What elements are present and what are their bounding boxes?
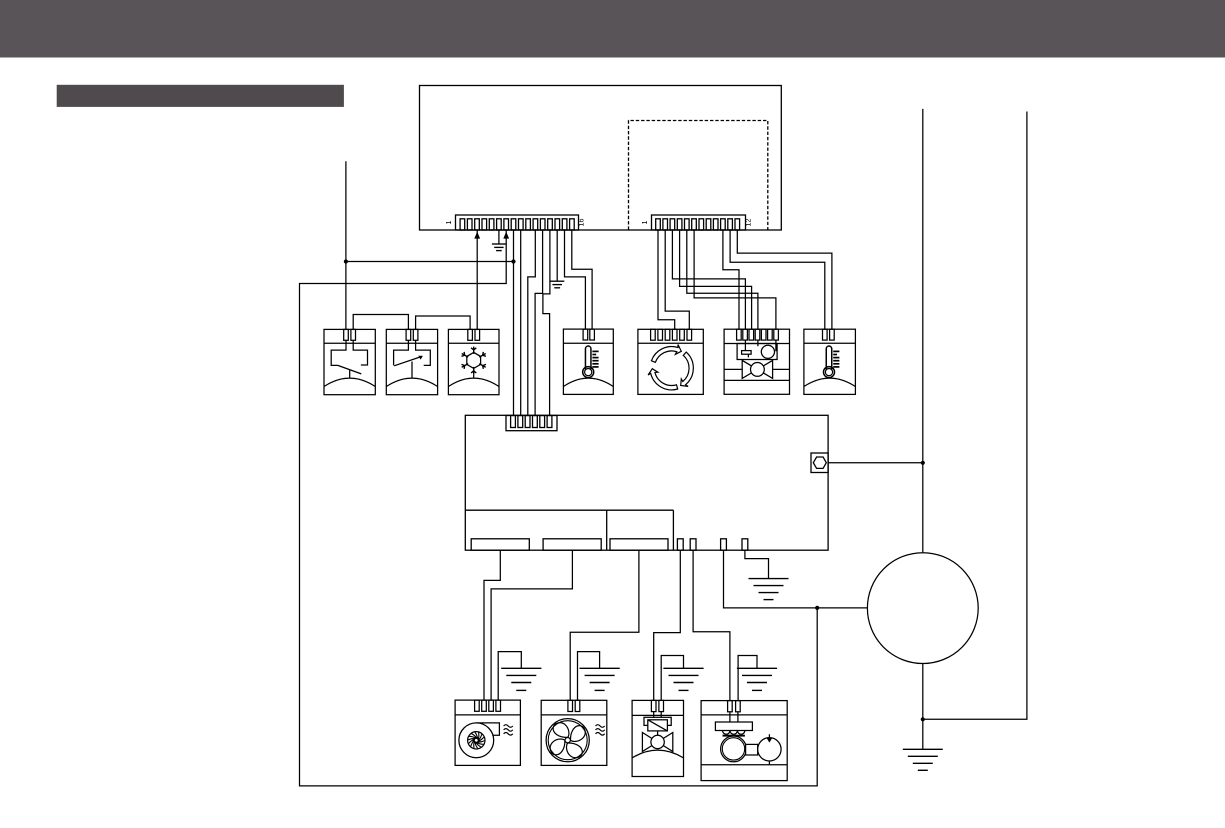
wire tab T6 to compressor xyxy=(724,550,868,608)
ground G8 lead xyxy=(922,719,924,749)
MF blades xyxy=(570,725,586,742)
wire hexagon terminal to line L1 xyxy=(828,462,923,464)
ground G7 lead from heater unit pin2 xyxy=(738,656,757,701)
wire tab T7 to ground G5 xyxy=(745,550,769,578)
wire pin11 to board pin3 xyxy=(528,230,536,416)
connector CN-B pins 1-12 xyxy=(656,219,740,230)
MB impeller blades xyxy=(468,732,485,749)
HU protector triangle xyxy=(767,738,773,743)
board section divider vertical 2 xyxy=(672,510,674,550)
arrow on pin7 wire xyxy=(503,232,509,239)
wire tab T1 to blower pin2 xyxy=(484,550,500,700)
LEV valve body left triangle xyxy=(742,360,757,378)
louver motor ML box xyxy=(638,329,703,394)
SV valve right triangle xyxy=(658,733,673,752)
expansion valve LEV header line xyxy=(724,343,789,345)
expansion valve LEV pins xyxy=(737,329,779,340)
float switch FS1 level arc xyxy=(324,378,375,386)
junction dot float branch xyxy=(344,259,348,263)
MF inner ring xyxy=(548,721,587,760)
TH1 thermometer symbol xyxy=(585,346,591,369)
board section divider vertical 1 xyxy=(606,510,608,550)
thermistor TH1 pins xyxy=(583,329,594,340)
thermistor TH2 box xyxy=(804,329,856,394)
thermistor TH2 header line xyxy=(804,342,856,344)
wire pin16 to thermistor TH1 pin2 xyxy=(572,230,592,329)
fan motor MF header line xyxy=(541,714,607,716)
wire pin14 ground stub xyxy=(556,230,558,281)
SV level arc xyxy=(632,750,683,758)
ground G5 xyxy=(749,579,789,600)
thermistor TH1 box xyxy=(563,329,613,394)
LEV coil resistor xyxy=(742,351,752,355)
junction dot hexagon wire xyxy=(921,461,925,465)
wire pin8 to board pin1 xyxy=(513,230,515,416)
HU coil bumps xyxy=(723,731,745,735)
HU motor outer circle xyxy=(721,736,747,762)
svg-text:16: 16 xyxy=(577,219,586,227)
TH2 thermometer symbol xyxy=(826,346,832,369)
solenoid valve SV box xyxy=(632,700,683,776)
ground G4 xyxy=(580,668,620,690)
board output tab T3 xyxy=(610,539,668,550)
thermistor TH1 header line xyxy=(563,342,613,344)
bridge wire FS1 to FS2 xyxy=(353,315,408,330)
wire tab T3 to fan pin1 xyxy=(570,550,639,700)
blower motor MB pins xyxy=(475,700,501,711)
wire CN-B pin11 to thermistor TH2 pin1 xyxy=(730,230,825,329)
wire CN-B pin2 to louver motor pin6 xyxy=(665,230,689,329)
bus wire to float switch branch xyxy=(346,261,514,263)
louver motor ML pins xyxy=(651,329,692,340)
defrost switch DEF header line xyxy=(448,342,499,344)
blower motor MB box xyxy=(455,700,520,765)
board output tab T6 xyxy=(721,539,727,550)
ground G4 lead from fan pin2 xyxy=(578,652,600,701)
junction dot frame right edge xyxy=(815,606,819,610)
LEV inner sub-box xyxy=(737,344,777,360)
defrost switch DEF level arc xyxy=(448,378,499,386)
thermistor TH2 level arc xyxy=(804,378,856,386)
float switch FS2 level arc xyxy=(386,378,437,386)
float switch FS1 box xyxy=(324,329,375,394)
wire tab T5 to heater unit pin1 xyxy=(693,550,730,700)
SV stem xyxy=(657,731,659,735)
DEF snowflake hexagon xyxy=(467,352,481,368)
ground G2 xyxy=(550,281,564,288)
wire tab T2 to blower pin3 xyxy=(491,550,572,700)
compressor supply line L1 xyxy=(922,109,924,552)
SV coil bracket xyxy=(644,717,671,725)
board output tab T5 xyxy=(690,539,696,550)
FS2 switch symbol xyxy=(394,340,431,378)
junction dot compressor ground xyxy=(921,717,925,721)
wire stub and drop to float switch FS1 xyxy=(345,161,347,329)
wire CN-B pin12 to thermistor TH2 pin2 xyxy=(737,230,832,329)
defrost switch DEF box xyxy=(448,329,499,394)
HU base line xyxy=(701,764,787,766)
thermistor TH2 pins xyxy=(823,329,835,340)
title bar xyxy=(57,85,344,107)
MB casing circle xyxy=(459,723,494,758)
header banner xyxy=(0,0,1225,58)
MF outer ring xyxy=(546,719,589,762)
ground G3 xyxy=(501,668,541,690)
MB airflow waves xyxy=(504,725,513,728)
wire CN-B pin3 to valve coil pin2 xyxy=(672,230,745,329)
board output tab T2 xyxy=(543,539,601,550)
wire pin13 to board pin6 xyxy=(543,230,550,416)
neutral line L2 xyxy=(923,112,1027,720)
wire CN-B pin10 to valve coil pin1 xyxy=(723,230,739,329)
wire CN-B pin4 to valve coil pin3 xyxy=(680,230,752,329)
heater unit HU pins xyxy=(728,701,741,712)
wire CN-B pin1 to louver motor pin4 xyxy=(658,230,675,329)
board output tab T7 xyxy=(742,539,748,550)
wire pin7 big loop to frame xyxy=(300,230,818,786)
thermistor TH1 level arc xyxy=(563,378,613,386)
HU motor inner circle xyxy=(722,738,744,760)
LEV valve ball xyxy=(751,363,765,377)
board output tab T4 xyxy=(677,539,683,550)
ground G3 lead from blower pin4 xyxy=(498,652,521,701)
MF airflow waves xyxy=(596,725,605,728)
louver motor ML header line xyxy=(638,342,703,344)
connector CN-B 12-pin shell xyxy=(652,215,746,230)
MF hub xyxy=(565,738,570,743)
board section divider horizontal xyxy=(465,509,673,511)
float switch FS1 pins xyxy=(344,329,356,340)
board output tab T1 xyxy=(471,539,529,550)
FS2 arrow tip xyxy=(418,356,423,360)
connector CN-A 16-pin shell xyxy=(456,215,579,230)
junction dot pin8 bus xyxy=(511,259,515,263)
compressor bottom lead xyxy=(922,664,924,720)
HU protector stub xyxy=(768,734,770,765)
dashed sub-module box xyxy=(629,121,768,230)
wire tab T4 to valve V2 pin1 xyxy=(654,550,681,700)
ground G6 lead from valve V2 pin2 xyxy=(661,656,683,701)
defrost switch DEF pins xyxy=(468,329,480,340)
ground G1 under connector xyxy=(492,244,506,251)
SV coil box xyxy=(648,720,668,731)
svg-text:1: 1 xyxy=(640,221,649,225)
hexagon terminal on board edge xyxy=(811,453,828,473)
float switch FS2 header line xyxy=(386,342,437,344)
SV pin leads xyxy=(654,712,662,718)
expansion valve LEV box xyxy=(724,329,789,394)
float switch FS2 pins xyxy=(406,329,418,340)
blower motor MB header line xyxy=(455,714,520,716)
wire pin9 to board pin2 xyxy=(520,230,522,416)
hexagon terminal nut xyxy=(813,457,826,468)
HU pin leads xyxy=(730,712,738,722)
float switch FS2 box xyxy=(386,329,437,394)
board connector CN-C pins 1-6 xyxy=(511,416,552,428)
LEV motor circle xyxy=(761,345,774,358)
fan motor MF pins xyxy=(568,700,580,711)
MB impeller rim xyxy=(468,732,485,749)
ground G7 xyxy=(737,668,777,690)
MB volute casing xyxy=(476,723,499,735)
compressor circle xyxy=(867,553,978,664)
DEF snowflake arms xyxy=(462,347,486,375)
SV coil diagonal xyxy=(648,720,668,731)
HU thermal bar xyxy=(723,735,745,737)
wire CN-B pin6 to valve coil pin7 xyxy=(694,230,776,329)
arrow on pin3 wire xyxy=(474,232,480,239)
FS1 switch symbol xyxy=(331,340,367,378)
ground G6 xyxy=(663,668,703,690)
HU plate xyxy=(715,722,752,731)
wire pin3 to defrost switch xyxy=(476,230,478,329)
ML rotation arrows xyxy=(651,345,681,363)
connector CN-A pins 1-16 xyxy=(460,219,574,230)
svg-text:12: 12 xyxy=(744,219,753,227)
DEF stem to arc xyxy=(473,374,475,378)
LEV coil leads xyxy=(745,340,776,357)
svg-text:1: 1 xyxy=(444,221,453,225)
wire pin15 to thermistor TH1 pin1 xyxy=(565,230,586,329)
solenoid valve SV header line xyxy=(632,714,683,716)
HU protector circle xyxy=(758,738,781,761)
heater unit HU header line xyxy=(701,714,787,716)
LEV pipe lines xyxy=(724,369,789,380)
float switch FS1 header line xyxy=(324,342,375,344)
fan motor MF box xyxy=(541,700,607,765)
wire pin6 ground stub xyxy=(498,230,500,244)
controller outdoor unit box xyxy=(420,86,782,231)
HU coupling box xyxy=(746,744,758,755)
LEV valve body right triangle xyxy=(757,360,772,378)
board connector CN-C shell xyxy=(506,416,557,431)
SV valve left triangle xyxy=(642,733,657,752)
SV valve ball xyxy=(651,735,664,748)
indoor control board xyxy=(465,415,828,550)
solenoid valve SV pins xyxy=(651,700,663,711)
ground G8 xyxy=(903,749,943,770)
wire CN-B pin5 to valve coil pin4 xyxy=(687,230,758,329)
wire pin12 to board pin4 xyxy=(535,230,543,416)
bridge wire FS2 to DEF xyxy=(416,316,471,329)
heater unit HU box xyxy=(701,701,787,781)
